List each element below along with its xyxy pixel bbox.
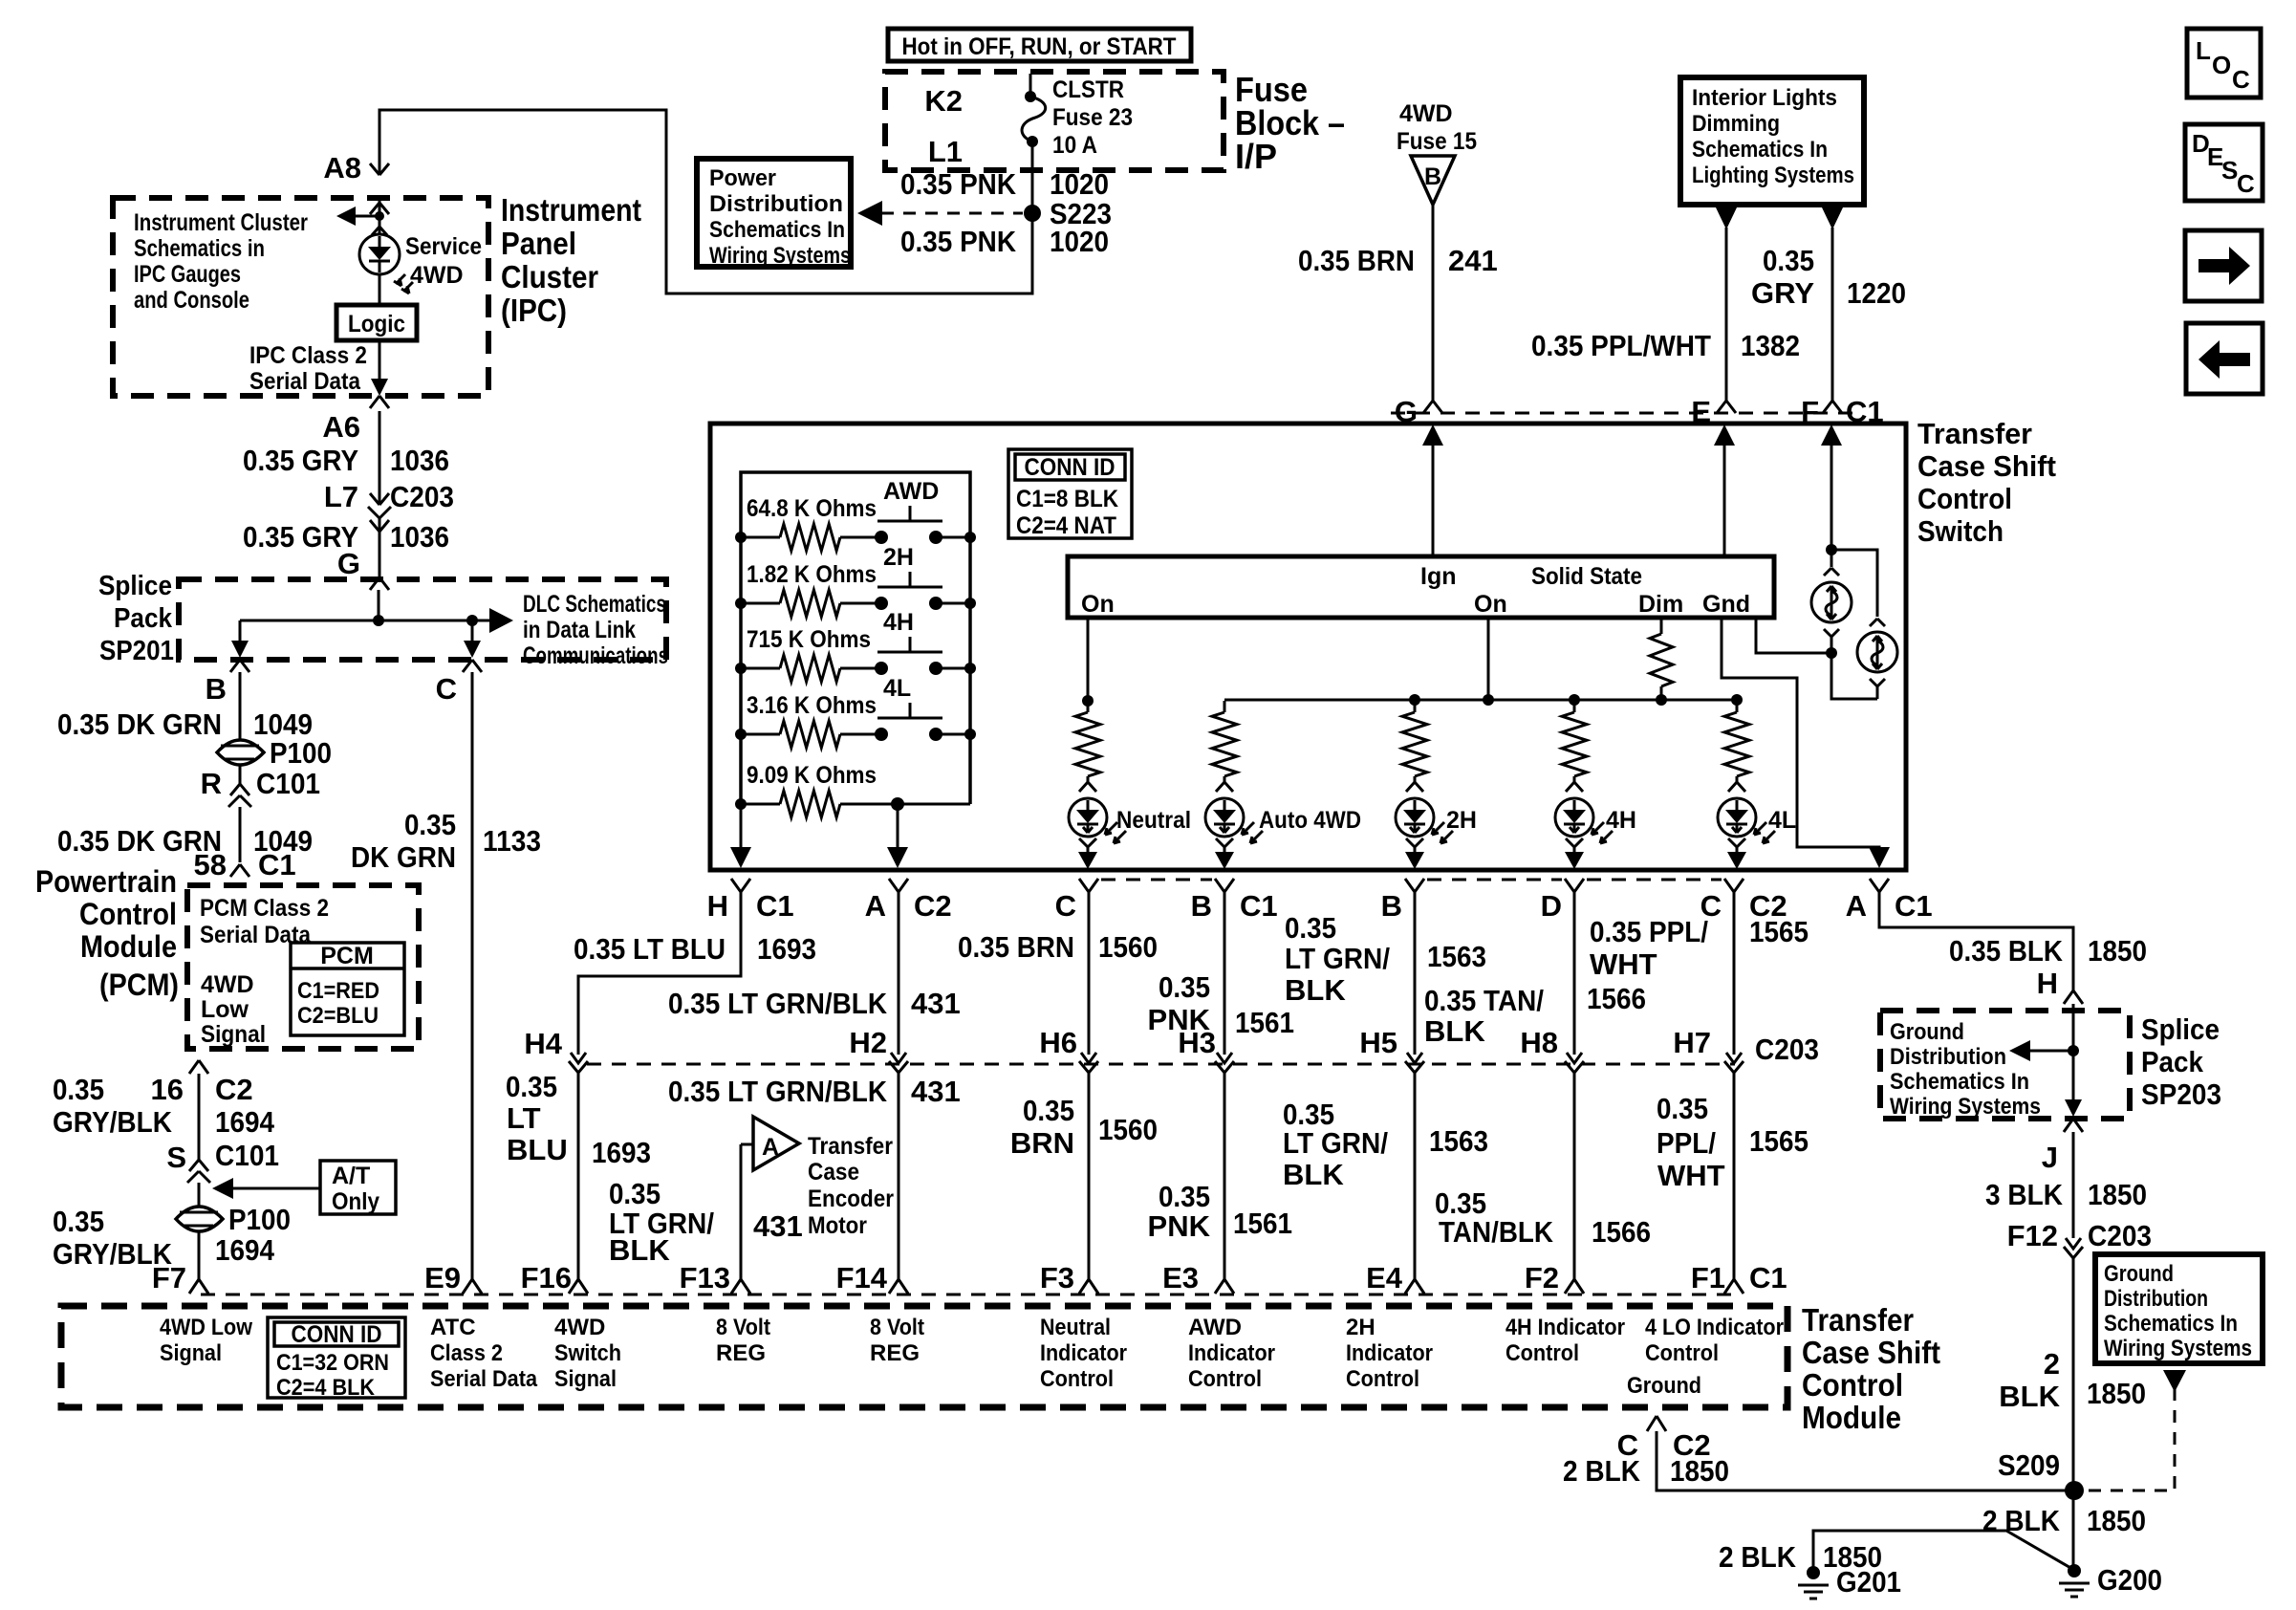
svg-text:C101: C101 xyxy=(215,1139,279,1172)
svg-text:0.35 GRY: 0.35 GRY xyxy=(243,444,358,477)
svg-text:0.35: 0.35 xyxy=(1657,1092,1708,1125)
svg-text:2 BLK: 2 BLK xyxy=(1719,1540,1797,1574)
svg-text:1694: 1694 xyxy=(215,1233,275,1267)
wire H column jog xyxy=(578,892,741,1055)
svg-text:Neutral: Neutral xyxy=(1116,807,1191,834)
resistor Auto 4WD indicator xyxy=(1224,701,1226,712)
svg-text:4WD Low: 4WD Low xyxy=(160,1315,252,1340)
svg-text:G201: G201 xyxy=(1836,1565,1901,1599)
svg-text:IPC Class 2: IPC Class 2 xyxy=(249,342,367,369)
svg-text:ATC: ATC xyxy=(430,1315,476,1340)
svg-text:1563: 1563 xyxy=(1427,940,1486,973)
svg-text:LT: LT xyxy=(507,1101,541,1135)
svg-text:B: B xyxy=(206,672,227,706)
svg-text:0.35: 0.35 xyxy=(609,1177,661,1210)
arrow to instrument cluster schematics xyxy=(344,215,381,218)
svg-text:4WD: 4WD xyxy=(554,1315,605,1340)
svg-text:9.09 K Ohms: 9.09 K Ohms xyxy=(747,762,877,789)
power distribution box xyxy=(697,159,851,267)
instrument cluster dashed box xyxy=(113,198,488,396)
svg-text:J: J xyxy=(2042,1141,2058,1174)
resistor 64.8 K Ohms row xyxy=(741,536,780,539)
node pin H/C1 switch bottom xyxy=(731,879,750,892)
svg-text:(PCM): (PCM) xyxy=(99,968,179,1002)
connector P100 grommet xyxy=(217,740,264,765)
svg-text:2 BLK: 2 BLK xyxy=(1563,1454,1641,1488)
thin dashed connector line module xyxy=(201,1294,1739,1296)
left arrow box xyxy=(2186,323,2263,394)
svg-text:Transfer: Transfer xyxy=(1917,417,2032,450)
svg-text:D: D xyxy=(1541,889,1562,923)
PCM dashed box xyxy=(187,885,419,1049)
svg-text:8 Volt: 8 Volt xyxy=(870,1315,924,1340)
node module pin at 775 xyxy=(731,1279,750,1294)
svg-text:Instrument: Instrument xyxy=(501,192,641,228)
ground G201 branch xyxy=(1813,1531,2072,1573)
Service 4WD LED indicator xyxy=(359,234,400,274)
svg-text:LT GRN/: LT GRN/ xyxy=(1285,942,1390,975)
svg-text:S: S xyxy=(166,1141,186,1174)
svg-text:2H: 2H xyxy=(1446,807,1477,834)
svg-text:431: 431 xyxy=(753,1209,803,1243)
svg-text:TAN/BLK: TAN/BLK xyxy=(1439,1215,1554,1249)
svg-text:1850: 1850 xyxy=(2087,1377,2146,1410)
wire 1694 lower xyxy=(198,1231,201,1279)
svg-text:1563: 1563 xyxy=(1429,1124,1488,1158)
svg-text:0.35 BLK: 0.35 BLK xyxy=(1949,934,2064,968)
svg-text:and Console: and Console xyxy=(134,287,249,314)
node module pin at 1139 xyxy=(1079,1279,1098,1294)
node A8 connector xyxy=(370,163,389,175)
ground G201 xyxy=(1807,1566,1820,1579)
svg-text:0.35 PNK: 0.35 PNK xyxy=(900,167,1017,201)
wire 1133 C column xyxy=(471,672,474,1279)
svg-text:Case Shift: Case Shift xyxy=(1802,1335,1940,1370)
svg-text:0.35 LT BLU: 0.35 LT BLU xyxy=(574,932,726,966)
svg-text:Logic: Logic xyxy=(348,311,405,337)
svg-text:0.35 LT GRN/BLK: 0.35 LT GRN/BLK xyxy=(668,1075,888,1108)
svg-text:C1: C1 xyxy=(1895,889,1933,923)
svg-text:Wiring Systems: Wiring Systems xyxy=(1890,1094,2041,1120)
svg-text:Pack: Pack xyxy=(2141,1045,2204,1078)
svg-text:F12: F12 xyxy=(2007,1219,2058,1252)
resistor 2H indicator xyxy=(1414,701,1417,712)
svg-text:0.35: 0.35 xyxy=(1159,1180,1210,1213)
resistor 3.16 K Ohms row xyxy=(741,733,780,736)
LED 2H xyxy=(1406,779,1423,792)
resistor 9.09 K Ohms row xyxy=(741,803,780,806)
svg-text:Only: Only xyxy=(332,1188,379,1215)
svg-text:3 BLK: 3 BLK xyxy=(1985,1178,2064,1211)
svg-text:O: O xyxy=(2212,51,2231,79)
wire column H2 xyxy=(898,892,900,1055)
svg-text:Control: Control xyxy=(79,897,177,931)
connector C203 crossing at 1480 xyxy=(1405,1053,1424,1073)
svg-text:(IPC): (IPC) xyxy=(501,293,567,328)
svg-text:B: B xyxy=(1424,163,1441,190)
svg-text:1565: 1565 xyxy=(1749,1124,1809,1158)
wire E pin to solid state xyxy=(1723,442,1726,556)
svg-text:H4: H4 xyxy=(524,1027,562,1060)
svg-text:L1: L1 xyxy=(928,135,963,168)
resistor 1.82 K Ohms row xyxy=(741,602,780,605)
svg-text:C2=BLU: C2=BLU xyxy=(297,1003,379,1029)
svg-text:4WD: 4WD xyxy=(410,262,464,289)
svg-text:1036: 1036 xyxy=(390,520,449,554)
wire 1036 upper xyxy=(379,411,381,505)
A/T Only box xyxy=(320,1161,396,1214)
svg-text:Indicator: Indicator xyxy=(1346,1340,1433,1366)
transfer case shift control module dashed box xyxy=(61,1306,1787,1407)
splice pack SP201 dashed box xyxy=(179,579,666,660)
svg-text:F13: F13 xyxy=(680,1261,730,1295)
svg-text:Control: Control xyxy=(1188,1366,1262,1392)
svg-text:0.35 PPL/: 0.35 PPL/ xyxy=(1590,915,1708,948)
svg-text:Switch: Switch xyxy=(554,1340,621,1366)
svg-text:4WD: 4WD xyxy=(201,971,254,998)
svg-text:1850: 1850 xyxy=(2088,1178,2147,1211)
svg-text:H2: H2 xyxy=(849,1026,887,1059)
svg-text:Signal: Signal xyxy=(160,1340,222,1366)
svg-text:Fuse 23: Fuse 23 xyxy=(1052,104,1133,131)
fuse CLSTR Fuse 23 xyxy=(1029,74,1032,92)
svg-text:1850: 1850 xyxy=(1670,1454,1729,1488)
svg-text:Distribution: Distribution xyxy=(1890,1044,2006,1070)
svg-text:Transfer: Transfer xyxy=(808,1133,893,1160)
svg-text:4H: 4H xyxy=(883,609,914,636)
svg-text:I/P: I/P xyxy=(1235,137,1277,176)
svg-text:Lighting Systems: Lighting Systems xyxy=(1692,163,1854,188)
svg-text:SP203: SP203 xyxy=(2141,1077,2221,1111)
svg-text:L7: L7 xyxy=(324,480,358,513)
svg-text:L: L xyxy=(2196,36,2211,65)
svg-text:SP201: SP201 xyxy=(99,636,174,666)
svg-text:DK GRN: DK GRN xyxy=(351,840,456,874)
svg-text:0.35: 0.35 xyxy=(1763,244,1814,277)
svg-text:GRY/BLK: GRY/BLK xyxy=(53,1105,173,1139)
svg-text:Transfer: Transfer xyxy=(1802,1302,1914,1338)
svg-text:2 BLK: 2 BLK xyxy=(1982,1504,2061,1537)
node module pin at 1281 xyxy=(1215,1279,1234,1294)
svg-text:Control: Control xyxy=(1645,1340,1719,1366)
svg-text:S209: S209 xyxy=(1998,1448,2060,1482)
connector C203 crossing at 1647 xyxy=(1565,1053,1584,1073)
svg-text:H6: H6 xyxy=(1039,1026,1077,1059)
svg-text:Splice: Splice xyxy=(2141,1012,2220,1046)
svg-text:1036: 1036 xyxy=(390,444,449,477)
svg-text:P100: P100 xyxy=(270,736,332,770)
LED 4L xyxy=(1728,779,1745,792)
svg-text:F7: F7 xyxy=(152,1261,186,1295)
connector C203 inline xyxy=(368,493,391,532)
node E terminal xyxy=(1717,401,1736,413)
wire F13 column xyxy=(740,1144,743,1279)
resistor 715 K Ohms row xyxy=(741,667,780,670)
svg-text:Class 2: Class 2 xyxy=(430,1340,503,1366)
svg-text:A: A xyxy=(762,1134,779,1161)
svg-text:C203: C203 xyxy=(390,480,454,513)
svg-text:H5: H5 xyxy=(1359,1026,1397,1059)
svg-text:Wiring Systems: Wiring Systems xyxy=(2104,1336,2252,1361)
logic box xyxy=(336,305,417,340)
arrow A/T Only xyxy=(229,1187,320,1190)
wire 1020 xyxy=(1031,141,1034,294)
CONN ID box module xyxy=(268,1317,405,1398)
svg-text:BLK: BLK xyxy=(1283,1158,1344,1191)
connector P100 grommet 2 xyxy=(198,1183,201,1207)
svg-text:431: 431 xyxy=(911,987,961,1020)
svg-text:H: H xyxy=(707,889,728,923)
svg-text:1020: 1020 xyxy=(1050,225,1109,258)
svg-text:PCM: PCM xyxy=(320,943,374,969)
svg-text:4L: 4L xyxy=(883,675,911,702)
node pin C/C2 switch bottom xyxy=(1724,879,1744,892)
svg-text:E4: E4 xyxy=(1366,1261,1403,1295)
node module pin at 208 xyxy=(189,1279,208,1294)
svg-text:Schematics In: Schematics In xyxy=(1890,1069,2029,1095)
node module pin at 940 xyxy=(889,1279,908,1294)
dashed connector segments below box xyxy=(1101,879,1722,881)
connector C203 right column xyxy=(2064,1238,2083,1258)
svg-text:C: C xyxy=(2232,65,2250,94)
svg-text:0.35 BRN: 0.35 BRN xyxy=(1298,244,1415,277)
splice S209 xyxy=(2065,1481,2084,1500)
svg-text:0.35 LT GRN/BLK: 0.35 LT GRN/BLK xyxy=(668,987,888,1020)
svg-text:C1=RED: C1=RED xyxy=(297,978,379,1004)
DESC box xyxy=(2185,124,2263,201)
svg-text:Powertrain: Powertrain xyxy=(35,864,177,899)
svg-text:BLK: BLK xyxy=(609,1233,670,1267)
svg-text:BLK: BLK xyxy=(1424,1014,1485,1048)
node module pin at 494 xyxy=(463,1279,482,1294)
svg-text:F14: F14 xyxy=(836,1261,888,1295)
svg-text:Hot in OFF, RUN, or START: Hot in OFF, RUN, or START xyxy=(902,33,1177,60)
dashed wire from ground distribution to S209 xyxy=(2163,1370,2186,1392)
svg-text:Control: Control xyxy=(1802,1367,1903,1403)
svg-text:BLK: BLK xyxy=(1999,1380,2060,1413)
svg-text:2H: 2H xyxy=(1346,1315,1375,1340)
svg-text:0.35: 0.35 xyxy=(404,808,456,841)
svg-text:F2: F2 xyxy=(1525,1261,1559,1295)
node pin D switch bottom xyxy=(1565,879,1584,892)
svg-text:2: 2 xyxy=(2044,1347,2060,1381)
svg-text:Schematics In: Schematics In xyxy=(709,217,845,243)
svg-text:0.35 BRN: 0.35 BRN xyxy=(958,930,1074,964)
svg-text:Ground: Ground xyxy=(2104,1261,2174,1287)
node pin A/C2 switch bottom xyxy=(889,879,908,892)
LED Auto 4WD xyxy=(1216,779,1233,792)
svg-text:1850: 1850 xyxy=(2087,1504,2146,1537)
connector C203 crossing at 605 xyxy=(569,1053,588,1073)
svg-text:F3: F3 xyxy=(1040,1261,1074,1295)
node F terminal xyxy=(1823,401,1842,413)
wire IPC internal xyxy=(372,198,387,382)
svg-text:C1=32 ORN: C1=32 ORN xyxy=(276,1350,389,1376)
svg-text:2H: 2H xyxy=(883,544,914,571)
switch blade 4L xyxy=(877,703,942,718)
transfer case encoder motor triangle A xyxy=(741,1143,753,1146)
svg-text:A6: A6 xyxy=(322,410,360,444)
wire column H6 xyxy=(1088,892,1091,1055)
svg-text:8 Volt: 8 Volt xyxy=(716,1315,770,1340)
svg-text:LT GRN/: LT GRN/ xyxy=(1283,1126,1388,1160)
svg-text:DLC Schematics: DLC Schematics xyxy=(523,591,666,618)
svg-text:WHT: WHT xyxy=(1590,947,1657,981)
svg-text:Pack: Pack xyxy=(114,603,173,634)
svg-text:On: On xyxy=(1474,591,1507,618)
arrow down at IPC box bottom xyxy=(371,379,388,396)
svg-text:CONN ID: CONN ID xyxy=(292,1321,382,1348)
svg-text:Serial Data: Serial Data xyxy=(249,368,361,395)
svg-text:C203: C203 xyxy=(2088,1219,2152,1252)
fuse block dashed box xyxy=(885,72,1224,170)
resistor Neutral indicator xyxy=(1087,701,1090,712)
svg-text:R: R xyxy=(201,767,222,800)
resistor Dim xyxy=(1660,618,1663,634)
svg-text:Fuse 15: Fuse 15 xyxy=(1397,128,1477,155)
svg-text:Communications: Communications xyxy=(523,642,668,669)
svg-text:Serial Data: Serial Data xyxy=(430,1366,538,1392)
arrow down from interior lights E wire xyxy=(1716,207,1737,229)
svg-text:in Data Link: in Data Link xyxy=(523,617,636,643)
svg-text:C203: C203 xyxy=(1755,1033,1819,1066)
wire 1049 lower xyxy=(239,807,242,862)
connector C203 dashed line xyxy=(587,1063,1735,1066)
svg-text:CONN ID: CONN ID xyxy=(1025,454,1116,481)
wire A/C1 to splice pack SP203 xyxy=(1879,892,2073,990)
svg-text:F1: F1 xyxy=(1691,1261,1725,1295)
svg-text:Control: Control xyxy=(1505,1340,1579,1366)
svg-text:C1: C1 xyxy=(1749,1261,1787,1295)
node pin B switch bottom xyxy=(1405,879,1424,892)
svg-text:16: 16 xyxy=(151,1073,184,1106)
svg-text:1020: 1020 xyxy=(1050,167,1109,201)
svg-text:Ground: Ground xyxy=(1627,1373,1701,1399)
svg-text:1382: 1382 xyxy=(1741,329,1800,362)
resistor 4L indicator xyxy=(1736,701,1739,712)
svg-text:0.35 PPL/WHT: 0.35 PPL/WHT xyxy=(1531,329,1711,362)
svg-text:AWD: AWD xyxy=(883,478,939,505)
svg-text:CLSTR: CLSTR xyxy=(1052,76,1124,103)
wire G into SP201 xyxy=(370,577,389,590)
svg-text:0.35: 0.35 xyxy=(1285,911,1336,945)
svg-text:0.35: 0.35 xyxy=(53,1073,104,1106)
lamp 2 xyxy=(1870,619,1885,626)
svg-text:Cluster: Cluster xyxy=(501,259,598,294)
svg-text:1566: 1566 xyxy=(1587,982,1646,1015)
connector C203 crossing at 1814 xyxy=(1724,1053,1744,1073)
svg-text:Module: Module xyxy=(1802,1400,1901,1435)
svg-text:C2: C2 xyxy=(215,1073,253,1106)
svg-text:Encoder: Encoder xyxy=(808,1186,894,1212)
svg-text:3.16 K Ohms: 3.16 K Ohms xyxy=(747,692,877,719)
connector C203 crossing at 1139 xyxy=(1079,1053,1098,1073)
wire indicator bus xyxy=(1224,699,1737,702)
svg-text:1560: 1560 xyxy=(1098,930,1158,964)
svg-text:A8: A8 xyxy=(323,151,361,185)
svg-text:H7: H7 xyxy=(1673,1026,1711,1059)
splice S223 xyxy=(1024,205,1041,222)
svg-text:1.82 K Ohms: 1.82 K Ohms xyxy=(747,561,877,588)
svg-text:F16: F16 xyxy=(521,1261,572,1295)
node module pin at 1814 xyxy=(1724,1279,1744,1294)
LOC box xyxy=(2187,29,2261,98)
svg-text:G200: G200 xyxy=(2097,1563,2162,1597)
wire A8 loop to fuse block xyxy=(379,110,1032,294)
svg-text:0.35 TAN/: 0.35 TAN/ xyxy=(1424,984,1544,1017)
svg-text:C1: C1 xyxy=(756,889,794,923)
splice pack SP203 dashed box xyxy=(1880,1011,2130,1119)
node G terminal xyxy=(1423,401,1442,413)
svg-text:1133: 1133 xyxy=(483,824,541,858)
svg-text:Dimming: Dimming xyxy=(1692,111,1780,137)
wire lamps to solid state xyxy=(1756,618,1877,699)
node module pin at 605 xyxy=(569,1279,588,1294)
wire Ign pin to G xyxy=(1432,442,1435,556)
svg-text:Gnd: Gnd xyxy=(1702,591,1750,618)
svg-text:4L: 4L xyxy=(1768,807,1796,834)
svg-text:Schematics In: Schematics In xyxy=(2104,1311,2238,1337)
node B exit SP201 xyxy=(239,620,242,642)
CONN ID box switch xyxy=(1008,449,1132,538)
svg-text:P100: P100 xyxy=(228,1203,291,1236)
resistor ladder box xyxy=(741,472,970,804)
svg-text:C: C xyxy=(436,672,457,706)
svg-text:431: 431 xyxy=(911,1075,961,1108)
svg-text:B: B xyxy=(1381,889,1402,923)
svg-text:10 A: 10 A xyxy=(1052,132,1097,159)
svg-text:Ground: Ground xyxy=(1890,1019,1964,1045)
wire 1049 upper xyxy=(239,672,242,741)
wire ladder to pin H xyxy=(740,804,743,850)
svg-text:0.35 PNK: 0.35 PNK xyxy=(900,225,1017,258)
svg-text:PCM Class 2: PCM Class 2 xyxy=(200,895,329,922)
wire column H7 xyxy=(1733,892,1736,1055)
wire On left pin xyxy=(1087,618,1090,701)
lamp 1 xyxy=(1824,568,1839,576)
svg-text:Ign: Ign xyxy=(1420,563,1457,590)
svg-text:REG: REG xyxy=(870,1340,920,1366)
transfer case shift control switch box xyxy=(710,424,1906,870)
svg-text:C1=8 BLK: C1=8 BLK xyxy=(1016,486,1118,512)
svg-text:1561: 1561 xyxy=(1233,1207,1292,1240)
svg-text:On: On xyxy=(1081,591,1115,618)
node C/C2 ground pin xyxy=(1647,1416,1666,1431)
node module pin at 1647 xyxy=(1565,1279,1584,1294)
svg-text:Module: Module xyxy=(80,929,177,964)
svg-text:Distribution: Distribution xyxy=(2104,1286,2208,1312)
node pin A/C1 switch bottom xyxy=(1870,879,1889,892)
svg-text:1560: 1560 xyxy=(1098,1113,1158,1146)
svg-text:64.8 K Ohms: 64.8 K Ohms xyxy=(747,495,877,522)
svg-text:Motor: Motor xyxy=(808,1212,867,1239)
svg-text:PNK: PNK xyxy=(1148,1209,1211,1243)
svg-text:Low: Low xyxy=(201,996,249,1023)
PCM box xyxy=(291,943,404,1035)
wire On middle pin xyxy=(1487,618,1490,700)
svg-text:0.35: 0.35 xyxy=(1023,1094,1074,1127)
svg-text:1693: 1693 xyxy=(592,1136,651,1169)
wire column H5 xyxy=(1414,892,1417,1055)
svg-text:C1: C1 xyxy=(258,848,296,881)
svg-text:241: 241 xyxy=(1448,244,1498,277)
svg-text:1565: 1565 xyxy=(1749,915,1809,948)
svg-text:Signal: Signal xyxy=(201,1021,266,1048)
svg-text:K2: K2 xyxy=(924,84,963,118)
dashed arrow to power distribution xyxy=(881,212,1023,215)
wire ground 1850 to S209 xyxy=(1657,1431,2074,1490)
svg-text:Service: Service xyxy=(405,233,482,260)
